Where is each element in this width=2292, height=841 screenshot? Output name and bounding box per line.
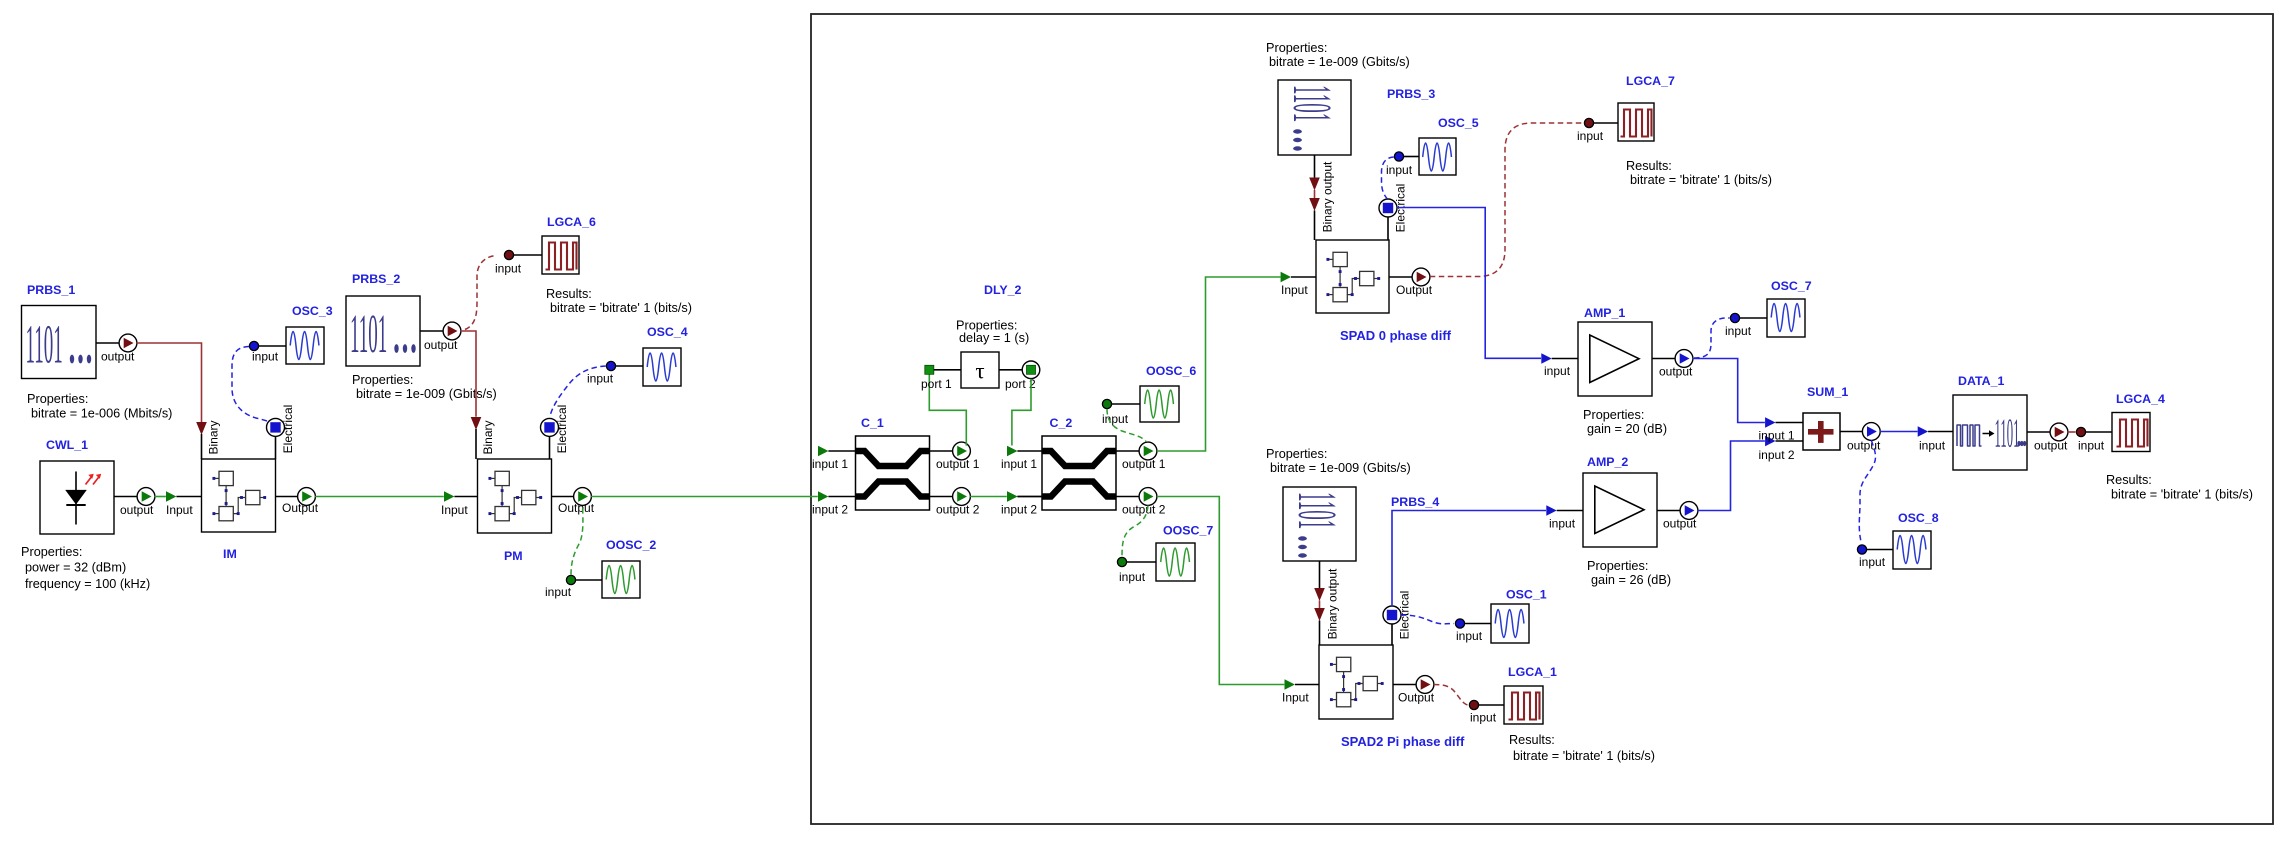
svg-text:Properties:: Properties:	[1583, 408, 1644, 422]
svg-text:LGCA_6: LGCA_6	[547, 215, 596, 229]
svg-text:Results:: Results:	[1626, 159, 1672, 173]
svg-text:1101: 1101	[26, 313, 63, 374]
svg-text:input 1: input 1	[1759, 429, 1795, 443]
svg-text:bitrate = 'bitrate' 1 (bits/s): bitrate = 'bitrate' 1 (bits/s)	[2111, 488, 2253, 502]
svg-text:output 1: output 1	[1122, 457, 1166, 471]
svg-text:input: input	[545, 585, 572, 599]
svg-text:1101: 1101	[350, 303, 387, 364]
svg-text:OSC_7: OSC_7	[1771, 279, 1812, 293]
svg-text:output: output	[1659, 365, 1693, 379]
svg-text:bitrate = 'bitrate' 1 (bits/s): bitrate = 'bitrate' 1 (bits/s)	[1513, 749, 1655, 763]
svg-text:PRBS_1: PRBS_1	[27, 283, 75, 297]
svg-text:1101: 1101	[1995, 410, 2020, 456]
svg-text:OOSC_2: OOSC_2	[606, 538, 656, 552]
svg-text:bitrate = 1e-009 (Gbits/s): bitrate = 1e-009 (Gbits/s)	[1270, 461, 1411, 475]
svg-text:Output: Output	[558, 501, 595, 515]
svg-text:bitrate = 'bitrate' 1 (bits/s): bitrate = 'bitrate' 1 (bits/s)	[550, 301, 692, 315]
svg-text:input 1: input 1	[812, 457, 848, 471]
svg-text:Binary output: Binary output	[1326, 568, 1340, 639]
svg-text:Results:: Results:	[2106, 473, 2152, 487]
svg-text:gain = 26 (dB): gain = 26 (dB)	[1591, 573, 1671, 587]
svg-text:1101: 1101	[1287, 492, 1348, 529]
svg-text:input: input	[1859, 555, 1886, 569]
svg-text:Results:: Results:	[546, 287, 592, 301]
svg-text:Binary: Binary	[481, 420, 495, 454]
svg-text:SUM_1: SUM_1	[1807, 385, 1848, 399]
svg-text:input 2: input 2	[812, 503, 848, 517]
svg-text:OSC_5: OSC_5	[1438, 116, 1479, 130]
svg-text:1101: 1101	[1282, 85, 1343, 122]
svg-text:Output: Output	[1398, 691, 1435, 705]
svg-text:Properties:: Properties:	[1587, 559, 1648, 573]
svg-text:AMP_2: AMP_2	[1587, 455, 1628, 469]
svg-text:output 2: output 2	[1122, 503, 1166, 517]
svg-text:Electrical: Electrical	[281, 405, 295, 454]
svg-text:LGCA_1: LGCA_1	[1508, 665, 1557, 679]
svg-text:OOSC_7: OOSC_7	[1163, 524, 1213, 538]
svg-text:Properties:: Properties:	[27, 392, 88, 406]
svg-text:Input: Input	[166, 503, 193, 517]
svg-text:Input: Input	[1282, 691, 1309, 705]
svg-text:output: output	[2034, 439, 2068, 453]
svg-text:PRBS_4: PRBS_4	[1391, 495, 1439, 509]
svg-text:Properties:: Properties:	[21, 545, 82, 559]
svg-text:input: input	[1386, 163, 1413, 177]
svg-text:input: input	[587, 372, 614, 386]
svg-text:DLY_2: DLY_2	[984, 283, 1022, 297]
svg-text:input: input	[1725, 324, 1752, 338]
svg-text:input: input	[252, 350, 279, 364]
svg-text:C_1: C_1	[861, 416, 884, 430]
svg-text:LGCA_7: LGCA_7	[1626, 74, 1675, 88]
svg-text:output: output	[1847, 439, 1881, 453]
svg-text:τ: τ	[975, 359, 984, 384]
svg-text:input: input	[1577, 129, 1604, 143]
svg-text:DATA_1: DATA_1	[1958, 374, 2004, 388]
svg-text:delay = 1 (s): delay = 1 (s)	[959, 331, 1029, 345]
svg-text:bitrate = 1e-006 (Mbits/s): bitrate = 1e-006 (Mbits/s)	[31, 407, 172, 421]
svg-text:OSC_4: OSC_4	[647, 325, 688, 339]
svg-text:Properties:: Properties:	[352, 373, 413, 387]
svg-text:power = 32 (dBm): power = 32 (dBm)	[25, 561, 126, 575]
svg-text:output 1: output 1	[936, 457, 980, 471]
svg-text:input 2: input 2	[1759, 448, 1795, 462]
svg-text:input: input	[495, 262, 522, 276]
svg-text:Output: Output	[1396, 283, 1433, 297]
svg-text:AMP_1: AMP_1	[1584, 306, 1625, 320]
svg-text:Properties:: Properties:	[1266, 447, 1327, 461]
svg-text:OOSC_6: OOSC_6	[1146, 364, 1196, 378]
svg-text:input 2: input 2	[1001, 503, 1037, 517]
svg-text:frequency = 100 (kHz): frequency = 100 (kHz)	[25, 577, 150, 591]
svg-text:input: input	[1549, 517, 1576, 531]
svg-text:gain = 20 (dB): gain = 20 (dB)	[1587, 422, 1667, 436]
svg-text:Binary output: Binary output	[1321, 161, 1335, 232]
svg-text:input: input	[1919, 439, 1946, 453]
svg-text:input 1: input 1	[1001, 457, 1037, 471]
svg-text:input: input	[1456, 629, 1483, 643]
svg-text:input: input	[1470, 711, 1497, 725]
svg-text:Binary: Binary	[207, 420, 221, 454]
svg-text:OSC_8: OSC_8	[1898, 511, 1939, 525]
svg-text:input: input	[1544, 364, 1571, 378]
svg-text:C_2: C_2	[1050, 416, 1073, 430]
svg-text:PRBS_3: PRBS_3	[1387, 87, 1435, 101]
svg-text:CWL_1: CWL_1	[46, 438, 88, 452]
svg-text:Output: Output	[282, 501, 319, 515]
svg-text:OSC_1: OSC_1	[1506, 588, 1547, 602]
svg-text:port 1: port 1	[921, 377, 952, 391]
svg-text:IM: IM	[223, 547, 237, 561]
svg-text:output: output	[120, 503, 154, 517]
svg-text:SPAD 0 phase diff: SPAD 0 phase diff	[1340, 328, 1452, 343]
svg-text:output: output	[1663, 517, 1697, 531]
svg-text:Results:: Results:	[1509, 733, 1555, 747]
svg-text:output 2: output 2	[936, 503, 980, 517]
svg-text:bitrate = 'bitrate' 1 (bits/s): bitrate = 'bitrate' 1 (bits/s)	[1630, 173, 1772, 187]
svg-text:PM: PM	[504, 549, 523, 563]
svg-text:Properties:: Properties:	[1266, 41, 1327, 55]
svg-text:Input: Input	[1281, 283, 1308, 297]
svg-text:PRBS_2: PRBS_2	[352, 272, 400, 286]
svg-text:Input: Input	[441, 503, 468, 517]
svg-text:output: output	[424, 338, 458, 352]
svg-text:SPAD2 Pi phase diff: SPAD2 Pi phase diff	[1341, 734, 1465, 749]
svg-text:output: output	[101, 350, 135, 364]
svg-text:input: input	[1119, 570, 1146, 584]
svg-text:Electrical: Electrical	[555, 405, 569, 454]
svg-text:input: input	[2078, 439, 2105, 453]
svg-text:LGCA_4: LGCA_4	[2116, 392, 2165, 406]
svg-text:bitrate = 1e-009 (Gbits/s): bitrate = 1e-009 (Gbits/s)	[1269, 55, 1410, 69]
svg-text:input: input	[1102, 412, 1129, 426]
svg-text:OSC_3: OSC_3	[292, 304, 333, 318]
